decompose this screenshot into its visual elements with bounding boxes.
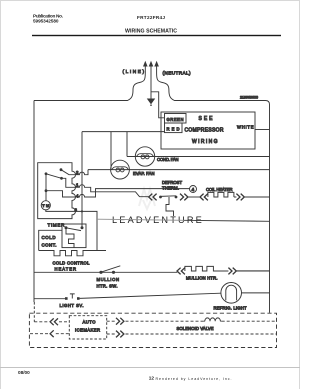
cold control switch arm xyxy=(66,228,81,231)
wire: red vertical drop V1 xyxy=(81,132,83,228)
connector arrows coil heater right xyxy=(236,194,244,201)
lamp REFRIG LIGHT xyxy=(221,283,242,304)
wire: evap fan line to right bus xyxy=(88,169,270,171)
cold control box xyxy=(39,230,62,250)
wire: cond fan feed vertical xyxy=(126,132,128,157)
timer box xyxy=(38,163,76,219)
icemaker dashed wire 1 xyxy=(34,321,69,323)
svg-text:COMPRESSOR: COMPRESSOR xyxy=(185,128,224,134)
dashed enclosure xyxy=(29,313,276,347)
cold control contact dots xyxy=(65,226,84,229)
svg-text:GREEN: GREEN xyxy=(167,117,184,122)
icemaker dashed wire 1 right xyxy=(107,320,277,322)
wire: timer line 2 to evap fan xyxy=(72,170,88,175)
ground arrow xyxy=(148,99,155,106)
label COLD CONTROL HEATER xyxy=(53,261,91,272)
callout circle 4 xyxy=(190,186,197,193)
mullion switch xyxy=(99,266,120,274)
label AUTO ICEMAKER xyxy=(75,320,100,333)
wire: timer line 3 xyxy=(72,211,97,250)
resistor cold control heater (box bottom) xyxy=(39,251,106,256)
svg-text:TM: TM xyxy=(42,203,50,208)
connector arrows icemaker right 2 xyxy=(116,331,124,338)
svg-text:LIGHT SV.: LIGHT SV. xyxy=(60,303,84,308)
svg-text:SOLENOID VALVE: SOLENOID VALVE xyxy=(177,326,214,331)
svg-text:TIMER: TIMER xyxy=(48,223,66,228)
light switch xyxy=(65,294,80,300)
svg-text:REFRIG. LIGHT: REFRIG. LIGHT xyxy=(214,306,247,311)
svg-text:WHITE: WHITE xyxy=(237,125,254,130)
wire coil heater to bus xyxy=(234,196,270,198)
label COLD CONT xyxy=(42,235,57,247)
svg-text:08/00: 08/00 xyxy=(18,370,30,375)
compressor box xyxy=(161,112,255,149)
wire: red lead xyxy=(82,131,165,133)
connector arrows mullion right xyxy=(228,268,236,275)
terminal box RED xyxy=(165,123,183,133)
svg-text:ICEMAKER: ICEMAKER xyxy=(75,327,100,332)
label DEFROST THERM xyxy=(162,180,182,191)
svg-text:4: 4 xyxy=(76,194,79,199)
svg-text:COIL HEATER: COIL HEATER xyxy=(206,187,233,192)
defrost thermostat xyxy=(159,196,177,199)
connector arrows coil heater left xyxy=(200,194,208,201)
watermark logo xyxy=(139,189,155,209)
resistor COIL HEATER xyxy=(208,192,234,197)
svg-text:FRT22FR4J: FRT22FR4J xyxy=(137,15,165,20)
icemaker dashed wire 2 xyxy=(30,333,277,335)
defrost therm heater tail xyxy=(166,197,174,216)
wire: green ground branch to compressor xyxy=(151,92,164,118)
svg-text:WIRING SCHEMATIC: WIRING SCHEMATIC xyxy=(125,29,177,35)
svg-text:MULLION HTR.: MULLION HTR. xyxy=(186,275,218,280)
connector arrows icemaker right 1 xyxy=(116,318,124,325)
wire: left bus vertical border xyxy=(33,101,35,303)
svg-text:THERM.: THERM. xyxy=(162,186,179,191)
wire: timer line 4 to callout xyxy=(72,189,189,197)
plug prong NEUTRAL xyxy=(155,62,158,73)
timer motor TM xyxy=(41,191,72,212)
cold control switch box xyxy=(62,224,86,248)
wire light switch to bulb xyxy=(80,293,221,298)
wire defrost to coil heater xyxy=(176,189,200,197)
wire mullion to bus xyxy=(220,270,270,272)
svg-text:WIRING: WIRING xyxy=(192,139,218,145)
resistor MULLION HTR xyxy=(185,266,220,271)
svg-text:EVAP. FAN: EVAP. FAN xyxy=(133,171,155,176)
svg-text:MULLION: MULLION xyxy=(97,277,120,282)
connector arrows defrost right xyxy=(180,194,188,201)
terminal box GREEN xyxy=(165,114,187,124)
timer wire C to line1 xyxy=(62,178,73,187)
cold control element xyxy=(66,228,74,248)
motor EVAP FAN xyxy=(111,160,130,179)
svg-text:COLD CONTROL: COLD CONTROL xyxy=(53,261,91,266)
wire bulb to bus xyxy=(242,292,270,294)
timer contact dots xyxy=(45,168,63,192)
connector arrows icemaker left 1 xyxy=(50,318,58,325)
wire: cond fan line to right bus xyxy=(127,156,270,158)
text SEE COMPRESSOR WIRING xyxy=(185,116,224,145)
wire: white to right bus xyxy=(255,129,270,131)
wire: neutral S-bend to right bus xyxy=(157,73,270,105)
wire: evap fan feed vertical xyxy=(110,132,112,170)
svg-text:Rendered by LeadVenture, Inc.: Rendered by LeadVenture, Inc. xyxy=(156,377,232,381)
timer wire D to line4 xyxy=(46,191,72,197)
svg-text:SEE: SEE xyxy=(199,116,214,122)
wire: left border dashed tail xyxy=(33,302,35,322)
solenoid coil xyxy=(203,318,221,321)
svg-text:CONT.: CONT. xyxy=(42,242,57,247)
motor COND FAN xyxy=(135,147,154,166)
wire: lower bus to right xyxy=(97,219,184,220)
svg-text:(NEUTRAL): (NEUTRAL) xyxy=(163,71,191,76)
schematic ink xyxy=(29,62,276,348)
svg-text:218963600: 218963600 xyxy=(240,96,258,100)
auto icemaker box xyxy=(69,316,106,339)
timer wire B to line2 xyxy=(61,170,72,175)
connector arrows defrost left xyxy=(149,194,157,201)
header rule xyxy=(32,35,281,36)
connector arrow icemaker left 2 xyxy=(50,330,54,337)
wire mullion to heater xyxy=(101,271,177,273)
svg-text:AUTO: AUTO xyxy=(83,320,97,325)
svg-text:COLD: COLD xyxy=(42,235,56,240)
plug prong LINE xyxy=(144,62,147,73)
svg-text:4: 4 xyxy=(192,187,195,192)
page bottom rule xyxy=(0,367,300,369)
junction line3/V1 xyxy=(81,210,83,212)
label MULLION HTR SW xyxy=(97,277,120,289)
svg-text:(LINE): (LINE) xyxy=(123,69,145,74)
svg-text:COND. FAN: COND. FAN xyxy=(157,157,179,162)
svg-text:12: 12 xyxy=(149,376,155,381)
connector arrows mullion left xyxy=(177,268,185,275)
svg-text:RED: RED xyxy=(167,126,180,131)
wire light line left xyxy=(34,298,66,300)
wire: timer line 1 to defrost therm xyxy=(72,185,149,197)
timer switch arm xyxy=(46,174,62,179)
wire: line-side S-bend to left bus xyxy=(34,73,145,101)
svg-text:5995342580: 5995342580 xyxy=(33,19,59,24)
timer wire A-D xyxy=(45,174,47,191)
svg-text:HTR. SW.: HTR. SW. xyxy=(97,284,118,289)
wire: right bus vertical xyxy=(269,105,271,313)
svg-text:HEATER: HEATER xyxy=(55,267,77,272)
plug prong ground xyxy=(149,62,152,99)
svg-text:DEFROST: DEFROST xyxy=(162,180,182,185)
wire mullion line left xyxy=(34,271,101,273)
